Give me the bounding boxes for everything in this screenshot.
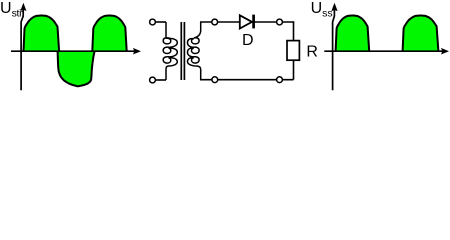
transformer primary terminal (bottom) [150,77,156,83]
resistor R body [287,41,299,61]
output graph horizontal axis arrowhead [441,48,449,55]
transformer secondary winding L2 [188,22,201,80]
input graph horizontal axis arrowhead [133,48,141,55]
svg-text:D: D [242,32,254,49]
transformer core [181,22,184,80]
output graph vertical axis arrowhead [331,3,337,11]
node terminal top left [212,19,218,25]
output hump 1 (rectified) [336,16,370,52]
input sine positive half-cycle 2 [92,16,126,52]
svg-text:R: R [306,43,318,60]
input graph horizontal axis [11,50,136,52]
wire bottom rail [200,79,294,81]
output graph horizontal axis [324,50,443,52]
wire right branch top [293,22,295,41]
corner top right [292,22,295,23]
input sine negative half-cycle [58,51,95,86]
wire primary bottom lead [155,79,166,81]
transformer primary terminal (top) [150,19,156,25]
input graph vertical axis arrowhead [20,3,26,11]
node terminal bottom left [212,77,218,83]
node terminal bottom right [277,77,283,83]
diode D anode triangle [240,15,252,28]
output graph vertical axis [333,10,335,90]
transformer primary winding L1 [163,22,177,80]
input sine positive half-cycle 1 [24,16,60,52]
wire top rail [200,21,294,23]
input graph vertical axis [21,10,23,90]
wire primary top lead [155,21,166,23]
wire right branch bottom [293,60,295,79]
node terminal top right [277,19,283,25]
output hump 2 (rectified) [403,16,439,52]
diode D cathode bar [252,15,255,29]
